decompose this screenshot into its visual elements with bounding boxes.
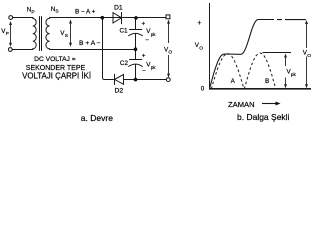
svg-text:C1: C1: [120, 27, 129, 34]
svg-text:P: P: [31, 9, 34, 15]
svg-text:B − A +: B − A +: [75, 9, 96, 16]
svg-text:pk: pk: [151, 65, 157, 70]
svg-text:S: S: [65, 33, 68, 39]
svg-text:D2: D2: [115, 87, 124, 94]
svg-text:DC VOLTAJ =: DC VOLTAJ =: [34, 56, 76, 63]
svg-text:C2: C2: [120, 60, 129, 67]
svg-text:O: O: [168, 50, 172, 56]
svg-text:B + A −: B + A −: [79, 40, 101, 47]
svg-text:ZAMAN: ZAMAN: [228, 100, 255, 109]
svg-text:P: P: [6, 31, 9, 37]
svg-text:a. Devre: a. Devre: [81, 113, 113, 123]
svg-text:−: −: [145, 37, 149, 44]
svg-text:D1: D1: [114, 4, 123, 11]
svg-text:B: B: [265, 78, 269, 85]
svg-text:pk: pk: [291, 72, 297, 77]
svg-text:0: 0: [201, 86, 205, 93]
svg-text:pk: pk: [151, 32, 157, 37]
svg-text:+: +: [142, 21, 146, 28]
svg-text:VOLTAJI ÇARPI İKİ: VOLTAJI ÇARPI İKİ: [22, 72, 91, 81]
svg-text:b. Dalga Şekli: b. Dalga Şekli: [237, 112, 290, 122]
svg-text:S: S: [55, 9, 58, 15]
svg-text:−: −: [142, 68, 146, 75]
svg-text:O: O: [199, 46, 203, 52]
svg-text:+: +: [197, 20, 201, 27]
svg-text:O: O: [307, 53, 311, 59]
svg-text:+: +: [142, 52, 146, 59]
